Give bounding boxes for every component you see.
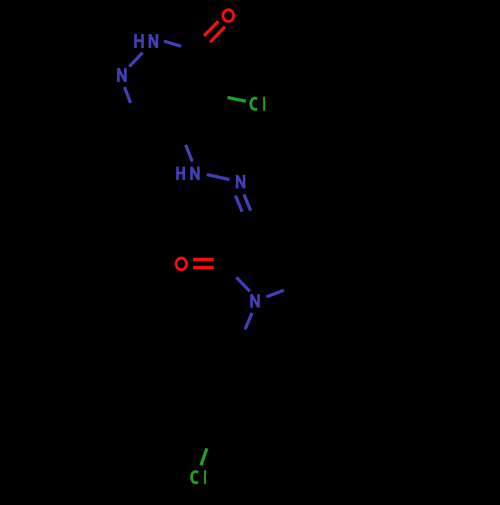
wire bond C3=O1 red half line1	[204, 21, 218, 36]
wire bond C4q-Cl2 green half	[201, 448, 207, 465]
wire bond N2-C3 blue half	[164, 41, 181, 46]
wire bond N7=C3p blue half line2	[244, 195, 251, 211]
atom Cl2	[191, 470, 205, 484]
atom N6 label HN	[176, 167, 198, 181]
wire bond C2p=O2 red half line2	[193, 266, 214, 269]
wire bond C4-Cl1 green half	[228, 98, 246, 102]
atom N1	[118, 68, 125, 82]
wire bond N1-N2	[129, 53, 142, 67]
atom Cl1	[251, 97, 264, 111]
wire bond C3=O1 red half line2	[210, 27, 225, 43]
atom N2 label HN	[134, 34, 157, 48]
wire bond N1p-C1q blue half	[245, 313, 252, 330]
atom N7	[237, 175, 244, 189]
atom N1p	[252, 294, 259, 308]
wire bond C5-N6 blue half	[186, 145, 193, 162]
wire bond C2p=O2 red half line1	[193, 258, 214, 261]
wire bond N6-N7	[207, 175, 229, 180]
wire bond N7=C3p blue half line1	[235, 196, 242, 212]
wire bond N1p-C2p blue half	[236, 277, 249, 291]
atom O1	[223, 10, 234, 22]
atom O2	[176, 258, 187, 270]
wire bond N1p-C7ap blue half	[266, 290, 283, 297]
wire bond N1-C6 blue half	[125, 87, 131, 103]
